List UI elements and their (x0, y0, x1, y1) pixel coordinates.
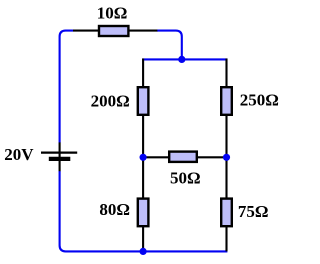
wire: black left bridge vertical (through 200-ohm, middle node, 80-ohm) (142, 59, 144, 252)
svg-text:80Ω: 80Ω (99, 200, 130, 219)
node: middle right junction (223, 154, 230, 161)
svg-text:75Ω: 75Ω (238, 202, 269, 221)
resistor 10 ohm (99, 26, 128, 36)
resistor 250 ohm (221, 87, 232, 115)
svg-text:200Ω: 200Ω (91, 91, 130, 110)
wire: blue left side from battery bottom, corner, bottom run to right vertical (60, 171, 228, 251)
wire: black middle horizontal rail through 50-ohm (143, 156, 226, 158)
node: bottom junction (140, 248, 147, 255)
node: middle left junction (140, 154, 147, 161)
resistor 200 ohm (138, 87, 149, 115)
wire: blue top-right from 10-ohm lead, corner, down to top node (157, 31, 182, 60)
svg-text:10Ω: 10Ω (97, 3, 128, 22)
wire: black right lead of 10-ohm resistor (128, 30, 157, 32)
svg-text:20V: 20V (4, 145, 34, 164)
resistor 75 ohm (221, 199, 232, 227)
resistor 80 ohm (138, 199, 149, 227)
wire: black left lead of 10-ohm resistor (73, 30, 100, 32)
svg-text:250Ω: 250Ω (240, 90, 279, 109)
wire: black right bridge vertical (through 250-ohm, middle node, 75-ohm) (225, 59, 227, 252)
svg-text:50Ω: 50Ω (170, 169, 201, 188)
wire: blue top-left from 10-ohm lead, corner, down left side to battery (60, 31, 73, 143)
resistor 50 ohm (169, 152, 197, 162)
node: top junction (178, 56, 185, 63)
wire: blue bridge top rail (142, 58, 227, 60)
battery 20V (41, 142, 77, 171)
